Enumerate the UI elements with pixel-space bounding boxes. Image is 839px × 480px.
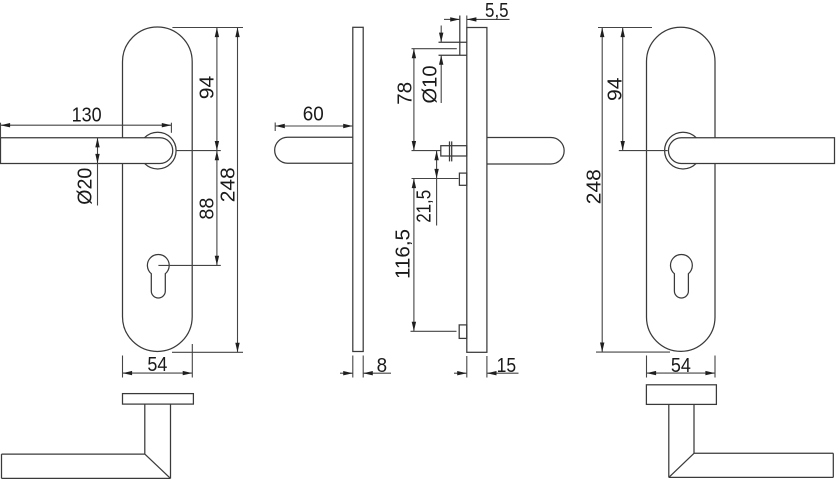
dim 248 arrows (right view) (600, 28, 604, 353)
svg-text:116,5: 116,5 (392, 229, 415, 279)
dim 54 arrows (left view) (123, 371, 193, 375)
dim 8 line and arrows (340, 372, 353, 374)
svg-text:78: 78 (394, 82, 417, 105)
grip bottom edge (bottom right) (669, 476, 834, 478)
dim 130 extension line (170, 123, 172, 133)
dim 54 line (left view) (123, 372, 193, 374)
upper fixing pin (459, 173, 466, 185)
spindle circlip (449, 141, 451, 161)
handle neck left line (bottom right) (668, 404, 670, 477)
dim 130 arrows (1, 123, 172, 127)
backplate (right view) (647, 27, 716, 351)
dim 88 arrows (215, 151, 219, 266)
top extension line (left view) (172, 27, 243, 29)
plate top extension (5,5) (466, 16, 468, 28)
rose circle (right view) (665, 132, 702, 169)
spindle (441, 146, 467, 156)
bottom extension line (left view) (172, 351, 243, 353)
dim 130 left extension (0, 123, 2, 138)
dim 60 arrows (275, 124, 353, 128)
dim 94 line (right view) (622, 28, 624, 151)
dim 60 extension line (274, 123, 276, 132)
dim 54 line (right view) (647, 372, 716, 374)
inside lever handle side view (487, 138, 564, 165)
plate end view (bottom right) (646, 385, 716, 405)
upper pin extension (412, 178, 459, 180)
grip bottom edge (bottom left) (2, 477, 171, 479)
dim 54 extension lines (right view) (646, 356, 648, 378)
grip top edge (bottom left) (2, 453, 145, 455)
rose circle (left view) (139, 132, 176, 169)
screw center extension (412, 48, 457, 50)
plate end view (bottom left) (123, 394, 194, 405)
keyhole (right view) (670, 254, 692, 298)
center extension line (right view) (619, 150, 668, 152)
grip end (bottom left) (1, 454, 3, 478)
dim 248 arrows (left view) (235, 28, 239, 353)
dim O10 (440, 26, 442, 43)
svg-text:248: 248 (582, 169, 605, 204)
svg-text:130: 130 (72, 104, 102, 127)
screw head (439, 41, 467, 43)
miter diagonal (bottom left) (145, 454, 171, 478)
dim 15 (454, 372, 467, 374)
dim 54 arrows (right view) (647, 371, 716, 375)
svg-text:Ø20: Ø20 (74, 168, 97, 205)
dim 248 line (right view) (601, 28, 603, 353)
svg-text:54: 54 (671, 354, 691, 377)
handle neck right line (bottom right) (693, 404, 695, 453)
svg-text:5,5: 5,5 (485, 0, 509, 22)
svg-text:94: 94 (195, 76, 218, 100)
dim 5,5 (444, 18, 460, 20)
handle neck right line (bottom left) (170, 404, 172, 478)
lower pin extension (411, 330, 457, 332)
keyhole extension line (left view) (158, 264, 220, 266)
handle neck left line (bottom left) (144, 404, 146, 454)
keyhole (left view) (147, 254, 169, 298)
dim 60 line (275, 125, 353, 127)
svg-text:88: 88 (196, 198, 219, 220)
svg-text:54: 54 (147, 353, 167, 376)
svg-text:Ø10: Ø10 (419, 66, 442, 104)
lever handle (right view) (668, 138, 834, 164)
dim 248 line (left view) (237, 28, 239, 353)
dim 8 extension lines (352, 356, 354, 378)
grip end (bottom right) (832, 453, 834, 477)
thin backplate side view (353, 27, 363, 351)
dim 94 arrows (left view) (215, 28, 219, 151)
svg-text:8: 8 (377, 354, 388, 377)
lever handle side view (275, 137, 353, 163)
dim 88 line (216, 151, 218, 266)
dim 78 (413, 49, 415, 151)
bottom extension line (right view) (596, 351, 670, 353)
dim 94 arrows (right view) (621, 28, 625, 151)
dim 94 line (left view) (216, 28, 218, 151)
svg-text:15: 15 (497, 354, 517, 377)
grip top edge (bottom right) (694, 452, 833, 454)
backplate (left view) (123, 27, 193, 352)
svg-text:21,5: 21,5 (413, 190, 436, 223)
dim 21,5 (436, 151, 438, 226)
handle center extension (middle) (412, 150, 441, 152)
dim 15 extension lines (466, 356, 468, 378)
top extension line (right view) (598, 27, 652, 29)
lever handle (left view) (1, 138, 173, 164)
lower fixing pin (459, 325, 467, 339)
dim 116,5 (413, 179, 415, 332)
svg-text:94: 94 (604, 77, 627, 101)
miter diagonal (bottom right) (669, 453, 694, 477)
svg-text:248: 248 (216, 167, 239, 202)
dim 130 line (1, 124, 172, 126)
dim O20 line (97, 138, 99, 206)
thick backplate side view (467, 28, 487, 353)
svg-text:60: 60 (303, 102, 324, 125)
dim O20 arrows (95, 138, 99, 164)
dim 54 extension lines (left view) (122, 356, 124, 378)
center extension line (left view) (176, 150, 221, 152)
